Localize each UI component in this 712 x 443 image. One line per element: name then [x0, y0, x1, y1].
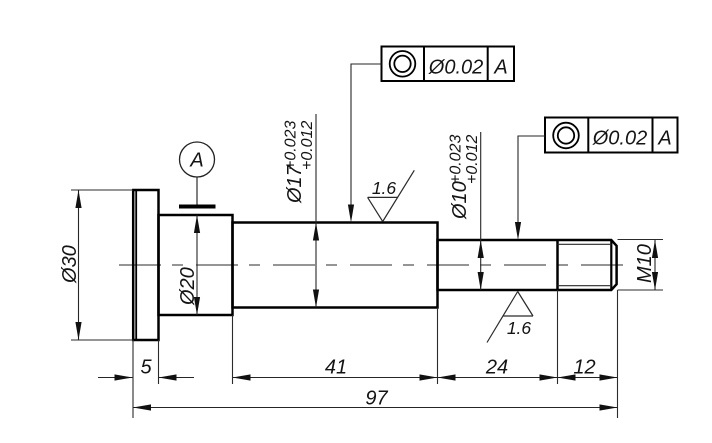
- ext line Ø30 bottom: [71, 339, 133, 341]
- arrow Ø10 bottom: [478, 272, 484, 290]
- centerline (shaft axis): [119, 264, 631, 266]
- svg-text:Ø0.02: Ø0.02: [428, 56, 484, 78]
- thread minor diameter lines: [558, 243, 612, 245]
- arrow 97 left: [133, 404, 151, 410]
- leader frame 1: [351, 64, 382, 210]
- arrow 41 left: [233, 374, 251, 380]
- svg-text:41: 41: [325, 357, 347, 379]
- arrow Ø17 bottom: [313, 290, 319, 308]
- svg-text:24: 24: [485, 357, 508, 379]
- concentricity symbol frame 1: [390, 51, 416, 77]
- dim line 5 left tail: [98, 377, 133, 379]
- arrow 5 left: [115, 374, 133, 380]
- datum stem: [196, 177, 198, 205]
- svg-text:Ø30: Ø30: [59, 245, 81, 284]
- svg-text:5: 5: [140, 357, 152, 379]
- arrow 12 right: [600, 374, 618, 380]
- svg-text:97: 97: [365, 388, 388, 410]
- dim line 97: [133, 407, 618, 409]
- chamfer edge line: [610, 240, 612, 290]
- arrow 24 left: [438, 374, 456, 380]
- datum A circle: [180, 142, 215, 177]
- shaft section Ø17 outline: [233, 223, 438, 308]
- arrow Ø17 top: [313, 223, 319, 241]
- roughness symbol 1.6 on Ø10: [487, 292, 533, 343]
- arrow Ø30 top: [75, 190, 81, 208]
- arrow 97 right: [600, 404, 618, 410]
- ext line flange right down: [158, 340, 160, 384]
- arrow Ø20 top: [194, 215, 200, 233]
- leader arrow frame 2: [515, 222, 521, 240]
- ext line step Ø20/Ø17 down: [232, 315, 234, 384]
- dim line Ø20: [196, 215, 198, 315]
- concentricity symbol frame 2: [553, 123, 579, 149]
- dimension lines: [79, 114, 656, 408]
- svg-text:Ø20: Ø20: [177, 267, 199, 306]
- dim line Ø10: [480, 132, 482, 290]
- arrow 41 right: [420, 374, 438, 380]
- svg-text:A: A: [493, 57, 507, 79]
- arrow 5 right: [159, 374, 177, 380]
- dim line Ø17: [315, 114, 317, 308]
- svg-text:A: A: [657, 128, 671, 150]
- ext line shaft right end down: [617, 290, 619, 418]
- extension lines: [71, 190, 663, 418]
- svg-text:+0.012: +0.012: [299, 121, 316, 170]
- tolerance frame 1: [382, 47, 515, 82]
- thread start line: [556, 240, 559, 290]
- dim line Ø30: [78, 190, 80, 340]
- svg-text:1.6: 1.6: [507, 318, 532, 338]
- arrow M10 top: [652, 240, 658, 258]
- svg-text:+0.023: +0.023: [448, 135, 465, 184]
- svg-text:Ø0.02: Ø0.02: [592, 128, 647, 150]
- arrow Ø20 bottom: [194, 297, 200, 315]
- ext line step Ø17/Ø10 down: [437, 308, 439, 385]
- datum bar: [179, 205, 216, 209]
- ext line M10 top: [618, 239, 664, 241]
- leader frame 2: [518, 136, 545, 227]
- flange left chamfer line: [135, 191, 137, 339]
- ext line flange left down: [132, 340, 134, 418]
- svg-text:+0.023: +0.023: [283, 121, 300, 170]
- dim line 5 right tail: [159, 377, 195, 379]
- flange Ø30 outline: [133, 190, 158, 340]
- arrow Ø30 bottom: [75, 322, 81, 340]
- arrow 12 left: [558, 374, 576, 380]
- svg-text:M10: M10: [634, 244, 656, 283]
- arrowheads: [75, 190, 658, 411]
- svg-text:A: A: [189, 150, 203, 172]
- arrow M10 bottom: [652, 272, 658, 290]
- leader arrow frame 1: [348, 205, 354, 223]
- ext line thread start down: [557, 290, 559, 384]
- arrow Ø10 top: [478, 240, 484, 258]
- arrow 24 right: [540, 374, 558, 380]
- dim line M10: [654, 240, 656, 290]
- svg-text:Ø10: Ø10: [449, 181, 471, 220]
- shaft section Ø20 outline: [159, 215, 233, 315]
- svg-text:+0.012: +0.012: [464, 135, 481, 184]
- svg-text:12: 12: [573, 357, 595, 379]
- ext line Ø30 top: [71, 189, 133, 191]
- shaft section Ø10 with threaded M10 end outline: [438, 240, 617, 290]
- svg-text:1.6: 1.6: [372, 178, 397, 198]
- roughness symbol 1.6 on Ø17: [368, 170, 415, 221]
- tolerance frame 2: [545, 118, 678, 153]
- dim line 41/24/12: [233, 377, 618, 379]
- ext line M10 bottom: [618, 289, 664, 291]
